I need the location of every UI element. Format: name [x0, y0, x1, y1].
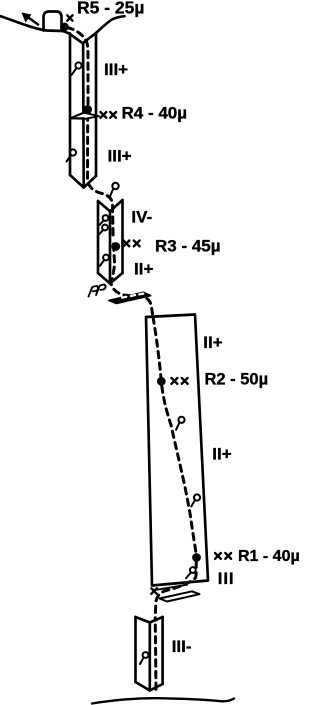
pillar 2 right edge	[121, 200, 124, 273]
svg-text:III: III	[218, 569, 235, 588]
pillar 1 left edge	[69, 34, 72, 176]
piton pillar3 mid	[194, 494, 200, 500]
ledge R4 base line	[70, 117, 84, 119]
pillar 1 right edge	[95, 33, 98, 176]
pillar 4 top	[136, 617, 163, 623]
rope pitch final (dashed)	[154, 625, 158, 694]
terrain line top-left	[0, 16, 125, 43]
pillar 1 inner edge	[82, 43, 85, 187]
svg-text:III+: III+	[104, 60, 128, 79]
pillar 2 ridge	[109, 211, 112, 284]
bolt x at R5	[67, 15, 72, 20]
svg-text:R3 - 45µ: R3 - 45µ	[155, 237, 221, 256]
anchor dot R3	[111, 242, 120, 251]
bolts xx at R4	[101, 112, 107, 118]
svg-text:R1 - 40µ: R1 - 40µ	[238, 548, 300, 565]
anchor dot R1	[192, 553, 201, 562]
svg-text:III+: III+	[108, 147, 132, 166]
svg-text:R5 - 25µ: R5 - 25µ	[77, 0, 144, 17]
anchor dot R5	[60, 23, 69, 32]
hatched belay ledge R3	[109, 292, 151, 303]
piton P right at belay	[96, 285, 106, 295]
pillar 2 left edge	[97, 201, 100, 273]
piton pillar1 lower	[70, 149, 76, 155]
pillar 2 bottom	[98, 273, 123, 284]
pillar 1 bottom	[70, 175, 96, 188]
pillar 4 right edge	[161, 617, 164, 684]
exit ledge outline	[160, 591, 200, 601]
bolts xx at R3	[124, 241, 130, 247]
piton pillar2 mid	[103, 255, 109, 261]
boulder	[44, 12, 62, 31]
piton P left at belay	[89, 286, 99, 296]
pillar 4 bottom	[136, 682, 163, 691]
piton pillar2 top2	[102, 225, 108, 231]
pillar 4 ridge	[148, 623, 151, 691]
ledge R4	[70, 113, 99, 119]
rope pitch R2 (dashed)	[153, 317, 197, 557]
anchor dot R2	[157, 377, 166, 386]
walk-off arrow	[27, 17, 38, 25]
piton pillar3 upper	[178, 417, 184, 423]
svg-text:II+: II+	[212, 444, 231, 463]
pillar 3 (main wall)	[146, 315, 208, 586]
piton pillar1 upper	[75, 62, 81, 68]
ledge line below pillar3	[156, 585, 187, 590]
svg-text:II+: II+	[203, 333, 222, 352]
terrain line bottom	[92, 698, 234, 703]
piton between pillar1 and pillar2	[112, 183, 118, 189]
bolt x at exit ledge	[151, 588, 157, 594]
svg-text:II+: II+	[134, 260, 153, 279]
bolts xx at R2	[172, 378, 178, 384]
svg-text:R4 - 40µ: R4 - 40µ	[122, 104, 188, 123]
rope pitch R3 (dashed)	[111, 244, 153, 314]
pillar 2 top	[98, 200, 123, 211]
piton pillar4	[143, 652, 149, 658]
svg-text:III-: III-	[172, 637, 192, 656]
rope pitch R1 exit (dashed)	[155, 561, 196, 620]
rope pitch R4 (dashed)	[88, 114, 114, 240]
rope pitch R5 (dashed)	[67, 28, 88, 105]
svg-text:R2 - 50µ: R2 - 50µ	[205, 371, 269, 389]
bolts xx at R1	[215, 553, 221, 559]
anchor dot R4	[83, 105, 92, 114]
pillar 4 left edge	[134, 617, 137, 682]
svg-text:IV-: IV-	[131, 208, 152, 227]
piton pillar3 lower	[190, 567, 196, 573]
piton pillar2 top1	[103, 215, 109, 221]
